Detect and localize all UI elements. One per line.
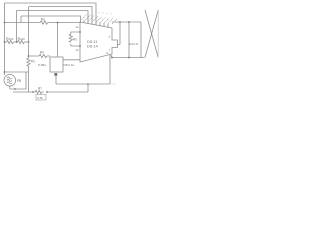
resistor R3 (27, 58, 30, 66)
label R7 value box (36, 95, 46, 101)
wire bottom right (111, 55, 145, 58)
wire riser (109, 54, 111, 84)
wire bus4 (21, 16, 81, 22)
wire mid rail (28, 7, 30, 59)
wire output (118, 44, 121, 46)
svg-text:R220: R220 (18, 37, 26, 41)
wire bus1 (5, 3, 97, 24)
node (87, 83, 89, 85)
node (14, 88, 16, 90)
svg-text:b: b (109, 35, 111, 39)
wire (28, 66, 30, 92)
wire (119, 22, 121, 45)
wire R1R2 (5, 41, 29, 43)
svg-text:DS-11: DS-11 (87, 40, 97, 44)
svg-text:CB 0.1k: CB 0.1k (64, 63, 75, 67)
AC source G1 (4, 74, 16, 86)
node (16, 41, 18, 43)
svg-text:R4: R4 (40, 51, 45, 55)
node (79, 31, 81, 33)
svg-text:PB: PB (17, 79, 21, 83)
node (32, 91, 34, 93)
wire branch (5, 71, 29, 73)
svg-text:8 4Ba: 8 4Ba (38, 63, 46, 67)
svg-text:220 Hz: 220 Hz (129, 42, 139, 46)
wire bottom mid (56, 83, 110, 85)
resistor R7 (33, 90, 44, 93)
node (28, 41, 30, 43)
wire (57, 23, 59, 58)
svg-text:R7: R7 (38, 87, 43, 91)
svg-text:1a: 1a (76, 25, 79, 29)
transducer right post (157, 11, 159, 58)
wire (20, 16, 22, 23)
wire step (87, 84, 89, 92)
svg-text:R3: R3 (31, 60, 36, 64)
node (119, 21, 121, 23)
wire (128, 22, 130, 58)
wire (16, 11, 18, 43)
resistor R6 (40, 21, 48, 24)
node (128, 57, 130, 59)
svg-text:R5: R5 (73, 38, 78, 42)
wire to box (29, 55, 51, 57)
AC source waveform (7, 77, 12, 84)
svg-text:R100: R100 (6, 37, 14, 41)
node (79, 45, 81, 47)
node (111, 57, 113, 59)
component below box (54, 73, 57, 76)
node (28, 55, 30, 57)
pin labels (slanted) (82, 15, 117, 25)
wire left rail (4, 3, 6, 75)
transducer cross wire (145, 10, 158, 58)
wire bottom low (13, 91, 88, 93)
transducer left post (140, 22, 142, 58)
resistor R1 (7, 40, 14, 43)
svg-text:DS-14: DS-14 (87, 45, 98, 49)
wire (55, 76, 57, 84)
resistor R4 (39, 54, 47, 57)
svg-text:1b: 1b (76, 48, 79, 52)
node (128, 21, 130, 23)
op-amp pin leads (84, 20, 108, 27)
node (4, 41, 6, 43)
transducer cross wire (145, 10, 158, 58)
wire top right (112, 21, 141, 23)
dashed stub (112, 83, 117, 85)
wire box to IC (63, 59, 81, 61)
node (57, 22, 59, 24)
wire bus3 (17, 11, 89, 23)
node (4, 71, 6, 73)
svg-text:0.5k: 0.5k (37, 96, 43, 100)
op-amp U1 body (80, 22, 118, 62)
svg-text:c: c (109, 49, 111, 52)
svg-text:R6: R6 (41, 18, 46, 22)
wire L loop (10, 72, 26, 89)
node (4, 22, 6, 24)
resistor R5 (69, 34, 72, 42)
resistor R5 branch (71, 32, 80, 46)
wire bus2 (29, 7, 92, 24)
resistor R2 (18, 40, 25, 43)
pin numbers (99, 12, 112, 14)
wire bus5 (5, 22, 82, 24)
node (46, 91, 48, 93)
IC U2 box (50, 57, 63, 72)
